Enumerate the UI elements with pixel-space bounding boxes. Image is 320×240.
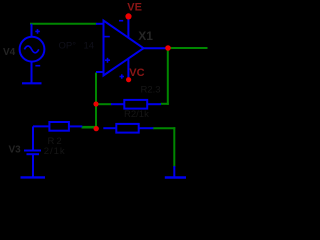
svg-text:X1: X1 [138,29,153,43]
svg-text:V4: V4 [3,47,16,58]
svg-text:V3: V3 [9,145,22,156]
svg-text:14: 14 [84,41,95,52]
svg-text:R2/1k: R2/1k [124,109,149,120]
svg-text:2/1k: 2/1k [44,146,66,157]
svg-text:VC: VC [129,67,144,79]
svg-text:VE: VE [127,2,142,14]
svg-text:OP°: OP° [59,41,77,52]
svg-text:R2.3: R2.3 [141,85,161,96]
